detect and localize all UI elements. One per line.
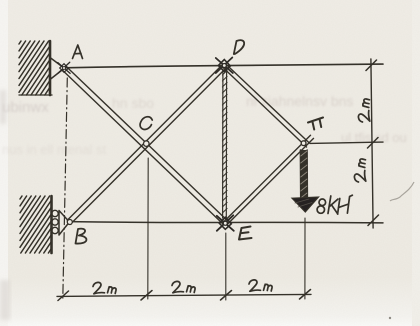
label node A [73,45,83,59]
wire: top chord member A-D with extension to right dimension [64,64,383,68]
dim label 2m (D-F span, rotated) [358,99,369,122]
member D-F double line [223,64,309,147]
roller support B: circles [52,210,58,233]
svg-text:nus in ell ntenal st: nus in ell ntenal st [2,142,106,157]
node A joint marker [58,62,70,73]
member E-F double line [224,135,314,224]
dim label 2m (C-E span) [172,281,195,292]
pin support A [50,58,64,80]
wall (lower, at B) hatched block [20,196,52,253]
dash-dot centerline at A/B [63,78,68,299]
bleed-through ghost text [2,93,407,157]
wall face at B [50,196,53,253]
member D-E vertical double line with hatch [223,70,227,218]
member A-C-E double line [62,66,227,224]
dim label 2m (F-E span, rotated) [354,159,365,182]
svg-text:ubinwx: ubinwx [2,99,49,116]
dim label 2m (E-load span) [249,280,272,291]
load arrow 8kN shaft at F [300,150,307,199]
member B-C-D double line [67,65,226,224]
node C joint pin [144,141,150,147]
stray pen squiggle right edge [390,182,414,201]
roller support B: triangle [59,211,69,236]
load arrow 8kN head [292,197,319,212]
extension line below node C [147,158,149,299]
dimension: bottom line [57,294,311,296]
extension line below load arrow [304,218,306,299]
extension line below node E [225,233,227,300]
dimension tick slashes bottom [58,290,311,301]
dim label 2m (A-C span) [93,282,116,293]
svg-text:hn sbo: hn sbo [112,95,154,111]
wall (upper, at A) hatched block [19,41,50,95]
wire: bottom chord member B-E with extension to right dimension [69,222,383,223]
wall face at A [49,41,52,95]
node D joint marker [216,58,233,74]
label node C [139,116,152,131]
node F joint pin [301,141,306,146]
svg-text:nl ziahnelnsv bns: nl ziahnelnsv bns [246,93,353,109]
dimension tick slashes right [366,60,379,226]
label node D [234,40,244,54]
label node B [76,229,87,244]
value label 8KN [317,195,352,214]
label node F (rotated) [308,118,323,130]
label node E [239,227,252,240]
node B joint pin [67,220,72,225]
dimension: right vertical line [371,59,373,228]
node E joint marker [217,215,234,231]
extension line from F to right dimension [310,142,383,143]
